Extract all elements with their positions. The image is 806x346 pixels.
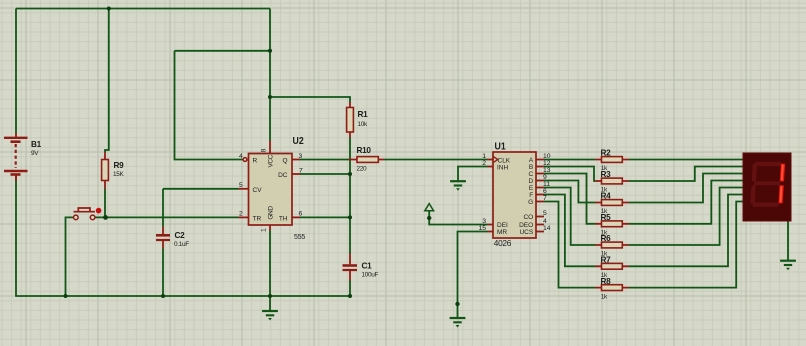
wire R1 bottom to DC TH C1 xyxy=(349,138,351,254)
wire INH to ground xyxy=(458,167,488,181)
svg-text:INH: INH xyxy=(497,165,509,172)
node reset link junction xyxy=(268,49,272,53)
wire R5 to display seg d xyxy=(629,181,743,224)
resistor R5 1k xyxy=(595,213,629,237)
wire R7 to display seg f xyxy=(629,195,743,267)
svg-text:6: 6 xyxy=(299,211,303,218)
wire 4026 D to R4 xyxy=(544,181,595,203)
svg-text:9: 9 xyxy=(543,174,547,181)
svg-text:4: 4 xyxy=(239,153,243,160)
svg-text:A: A xyxy=(529,157,534,164)
svg-text:DEO: DEO xyxy=(519,222,533,229)
svg-text:E: E xyxy=(529,185,534,192)
node TH junction xyxy=(348,215,352,219)
op-amp U2 555 timer xyxy=(239,136,306,241)
node DEI arrow node xyxy=(427,216,431,220)
wire CV wire to C2 xyxy=(163,188,239,190)
svg-text:5: 5 xyxy=(543,210,547,217)
svg-text:DEI: DEI xyxy=(497,222,508,229)
wire 4026 E to R6 xyxy=(544,188,595,246)
svg-text:10k: 10k xyxy=(358,121,369,128)
resistor R8 1k xyxy=(595,277,629,301)
wire R9 bottom to button node xyxy=(104,189,106,217)
pushbutton switch xyxy=(74,208,102,220)
node R9 top junction xyxy=(107,7,111,11)
node C2 rail junction xyxy=(161,294,165,298)
wire Q out to R10 xyxy=(300,159,349,161)
wire 4026 A to R2 to display a xyxy=(544,159,595,161)
7-segment display xyxy=(743,153,791,221)
node TR button R9 junction xyxy=(103,215,108,220)
wire button left leg to bottom rail xyxy=(66,217,74,296)
wire 4026 G to R8 xyxy=(544,202,595,288)
svg-text:R5: R5 xyxy=(601,213,612,222)
svg-text:4026: 4026 xyxy=(494,238,512,248)
svg-text:DC: DC xyxy=(278,172,288,179)
node button rail junction xyxy=(64,294,68,298)
svg-text:7: 7 xyxy=(299,167,303,174)
resistor R6 1k xyxy=(595,234,629,258)
svg-text:R: R xyxy=(253,158,258,165)
svg-text:1: 1 xyxy=(482,153,486,160)
svg-text:R8: R8 xyxy=(601,277,612,286)
svg-text:GND: GND xyxy=(267,206,274,220)
wire 4026 C to R5 xyxy=(544,174,595,224)
svg-text:TH: TH xyxy=(279,215,288,222)
svg-text:1: 1 xyxy=(261,228,268,232)
svg-text:555: 555 xyxy=(294,234,305,241)
svg-text:G: G xyxy=(528,199,533,206)
svg-text:VCC: VCC xyxy=(267,154,274,167)
svg-text:13: 13 xyxy=(543,167,551,174)
node DC junction xyxy=(348,172,352,176)
wire button to 555 TR xyxy=(95,216,239,218)
wire R8 to display seg g xyxy=(629,202,743,288)
battery B1 9V xyxy=(4,133,42,181)
svg-text:14: 14 xyxy=(543,225,551,232)
svg-text:R3: R3 xyxy=(601,170,612,179)
wire battery - to bottom rail xyxy=(16,176,350,296)
capacitor C2 0.1uF xyxy=(156,227,189,249)
capacitor C1 100uF xyxy=(343,254,379,281)
svg-text:R4: R4 xyxy=(601,192,612,201)
svg-text:R9: R9 xyxy=(114,161,125,170)
svg-text:1k: 1k xyxy=(601,293,608,300)
svg-text:100uF: 100uF xyxy=(362,272,379,279)
svg-text:R1: R1 xyxy=(358,110,369,119)
wire 555 GND to ground xyxy=(269,231,271,312)
wire R10 to 4026 CLK xyxy=(384,159,488,161)
svg-text:C: C xyxy=(528,171,533,178)
svg-text:5: 5 xyxy=(239,182,243,189)
svg-text:9V: 9V xyxy=(31,150,39,157)
wire R1 top branch xyxy=(270,97,350,102)
svg-text:C1: C1 xyxy=(362,261,373,270)
svg-text:0.1uF: 0.1uF xyxy=(174,241,189,248)
svg-text:B1: B1 xyxy=(31,140,42,149)
svg-text:8: 8 xyxy=(261,148,268,152)
svg-text:2: 2 xyxy=(239,211,243,218)
wire VCC drop to 555 pin 8 xyxy=(269,9,271,141)
svg-text:MR: MR xyxy=(497,229,507,236)
svg-text:C2: C2 xyxy=(175,231,186,240)
wire display ground wire xyxy=(787,221,789,261)
svg-text:6: 6 xyxy=(543,188,547,195)
wire left rail to battery + xyxy=(15,9,17,134)
ground MR xyxy=(450,318,466,328)
svg-text:U1: U1 xyxy=(495,141,507,152)
svg-text:R10: R10 xyxy=(357,146,372,155)
svg-text:11: 11 xyxy=(543,181,550,188)
svg-text:15K: 15K xyxy=(113,171,125,178)
svg-text:R7: R7 xyxy=(601,256,612,265)
resistor R9 15K xyxy=(102,152,125,189)
resistor R3 1k xyxy=(595,170,629,194)
svg-text:R2: R2 xyxy=(601,149,612,158)
wire CV vertical xyxy=(162,189,164,227)
wire reset drop to pin 4 xyxy=(175,51,244,160)
wire R4 to display seg c xyxy=(629,174,743,203)
svg-text:CO: CO xyxy=(523,214,533,221)
wire R9 branch from top rail xyxy=(105,9,109,153)
resistor R7 1k xyxy=(595,256,629,280)
resistor R1 10k xyxy=(347,102,369,138)
svg-text:U2: U2 xyxy=(293,136,305,147)
svg-text:4: 4 xyxy=(543,218,547,225)
node R1 branch junction xyxy=(268,95,272,99)
node MR ground node xyxy=(455,302,459,306)
svg-text:B: B xyxy=(529,164,533,171)
svg-text:12: 12 xyxy=(543,160,551,167)
svg-text:D: D xyxy=(528,178,533,185)
ground below 555 xyxy=(262,311,278,321)
wire DC pin 7 wire xyxy=(300,173,350,175)
wire R6 to display seg e xyxy=(629,188,743,246)
svg-text:3: 3 xyxy=(299,153,303,160)
wire C1 bottom to rail node xyxy=(349,281,351,297)
svg-text:CV: CV xyxy=(253,187,263,194)
svg-text:TR: TR xyxy=(253,215,262,222)
wire R2 to display seg a xyxy=(629,159,743,161)
svg-text:Q: Q xyxy=(282,158,287,165)
svg-text:2: 2 xyxy=(482,160,486,167)
DEI input arrow marker xyxy=(425,204,434,211)
wire 4026 B to R3 xyxy=(544,167,595,182)
svg-text:220: 220 xyxy=(357,165,368,172)
wire R3 to display seg b xyxy=(629,167,743,182)
counter U1 4026 xyxy=(478,141,550,248)
ground display xyxy=(780,261,796,271)
wire MR to ground xyxy=(458,232,488,319)
svg-text:10: 10 xyxy=(543,153,551,160)
svg-text:R6: R6 xyxy=(601,234,612,243)
wire TH pin 6 wire xyxy=(300,216,350,218)
wire DEI wire from arrow xyxy=(429,211,487,225)
svg-text:CLK: CLK xyxy=(498,158,511,165)
node GND rail junction xyxy=(268,294,272,298)
svg-text:7: 7 xyxy=(543,195,547,202)
wire top power rail xyxy=(16,8,270,10)
ground INH xyxy=(450,181,466,191)
node C1 rail junction xyxy=(348,294,352,298)
wire VCC reset link xyxy=(175,50,271,52)
svg-text:F: F xyxy=(529,192,533,199)
resistor R2 1k xyxy=(595,149,629,173)
wire 4026 F to R7 xyxy=(544,195,595,267)
svg-text:3: 3 xyxy=(482,218,486,225)
svg-text:UCS: UCS xyxy=(519,229,533,236)
resistor R10 220 xyxy=(349,146,385,172)
svg-text:15: 15 xyxy=(478,225,486,232)
resistor R4 1k xyxy=(595,192,629,216)
wire C2 bottom to rail xyxy=(162,249,164,297)
